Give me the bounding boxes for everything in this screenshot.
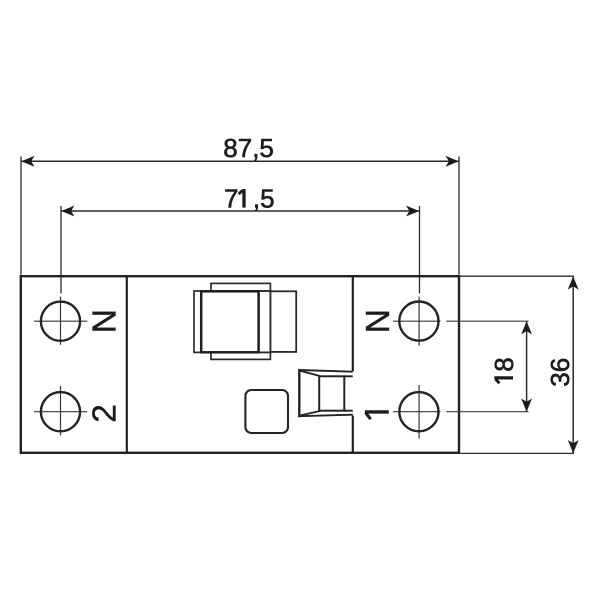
switch window bottom tab xyxy=(211,352,270,359)
dimension 87,5 xyxy=(21,156,459,275)
pole divider right (broken by toggle) xyxy=(352,276,354,371)
dimension 71,5 xyxy=(61,206,420,294)
terminal screw N right xyxy=(393,297,529,346)
pole divider left xyxy=(126,276,128,453)
dimension 18 xyxy=(521,321,532,412)
terminal screw 2 left xyxy=(34,386,87,435)
switch window main square xyxy=(201,291,258,352)
svg-text:7: 7 xyxy=(224,184,238,214)
switch window top tab xyxy=(211,283,270,291)
terminal screw N left xyxy=(34,297,87,345)
switch window back plate xyxy=(194,291,270,352)
svg-text:87,5: 87,5 xyxy=(223,133,274,163)
label 1 right (rotated, drawn without foot serif) xyxy=(365,412,389,419)
dimension 36 xyxy=(459,276,579,453)
switch window right plate xyxy=(270,291,296,352)
svg-text:N: N xyxy=(87,309,124,333)
test button (rounded square) xyxy=(245,390,288,433)
svg-text:,5: ,5 xyxy=(253,184,275,214)
terminal screw 1 right xyxy=(393,385,529,439)
toggle lever xyxy=(299,369,353,417)
device body outline xyxy=(21,276,459,453)
svg-text:36: 36 xyxy=(545,358,575,387)
svg-text:2: 2 xyxy=(87,404,124,423)
svg-text:8: 8 xyxy=(489,357,519,371)
svg-text:N: N xyxy=(360,309,397,333)
